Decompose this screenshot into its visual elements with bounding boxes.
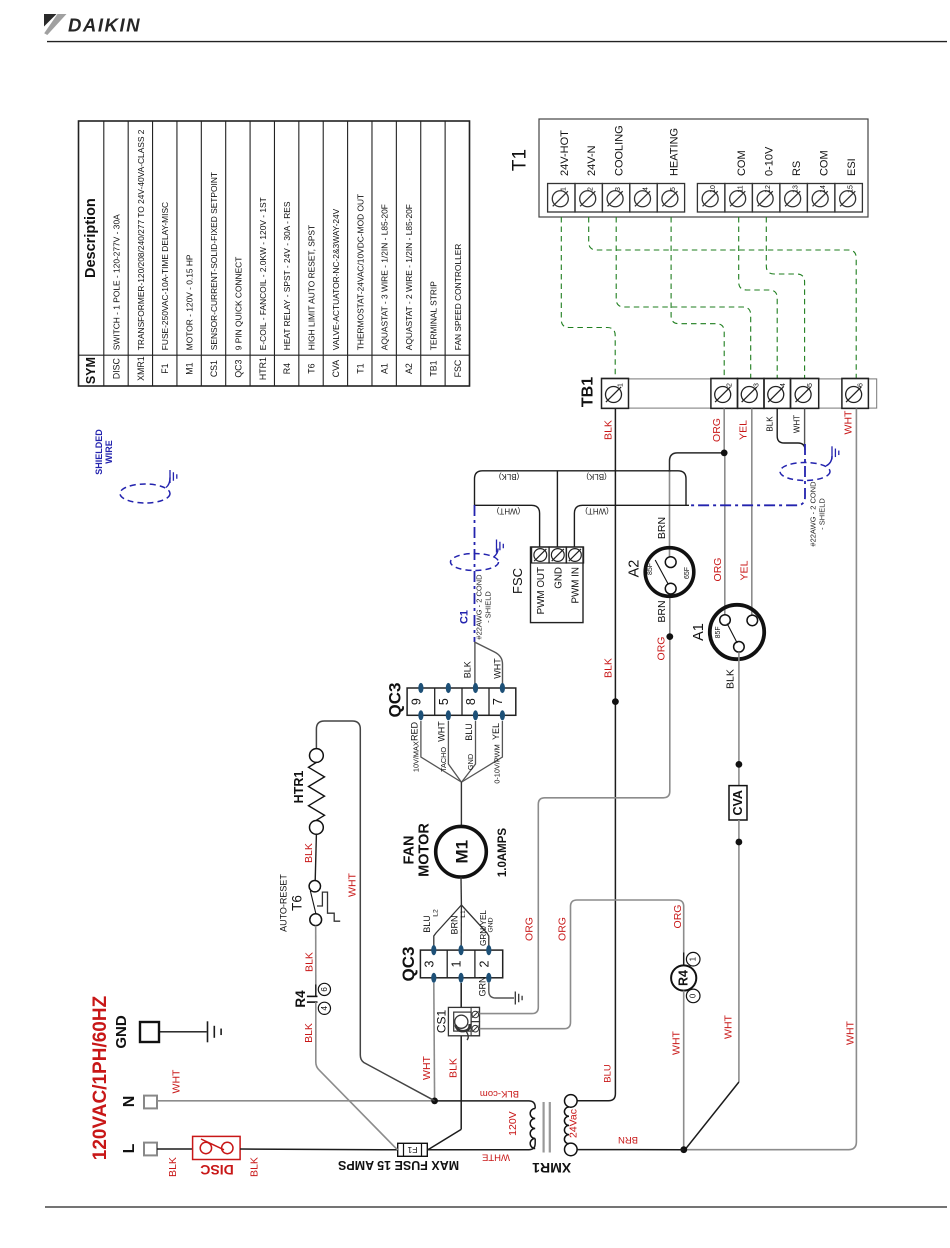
svg-text:FAN: FAN: [402, 836, 418, 865]
wire QC3-3 WHT down to N line: [433, 983, 436, 1101]
aquastat A2: [645, 548, 694, 597]
svg-text:XMR1: XMR1: [136, 356, 146, 381]
wire T1-5 to TB1-2: [671, 217, 724, 378]
svg-text:8: 8: [464, 698, 478, 705]
wire TB1-5 WHT to shielded cable: [804, 409, 806, 447]
svg-text:ORG: ORG: [556, 917, 568, 941]
svg-text:TB1: TB1: [428, 360, 438, 376]
relay coil R4: [683, 953, 685, 966]
T1 terminal 14: [807, 184, 835, 213]
svg-text:QC3: QC3: [399, 947, 418, 982]
svg-text:M1: M1: [453, 840, 472, 864]
TB1 terminal 4: [764, 378, 791, 408]
svg-text:C1: C1: [459, 610, 471, 624]
svg-text:BLK: BLK: [603, 420, 615, 440]
svg-text:AQUASTAT - 2 WIRE - 1/2IN - L8: AQUASTAT - 2 WIRE - 1/2IN - L85-20F: [404, 204, 414, 350]
svg-text:WHTE: WHTE: [482, 1152, 510, 1163]
svg-text:WHT: WHT: [171, 1069, 183, 1093]
svg-text:FUSE-250VAC-10A-TIME DELAY-MIS: FUSE-250VAC-10A-TIME DELAY-MISC: [160, 202, 170, 350]
svg-text:4: 4: [643, 187, 650, 191]
svg-text:R4: R4: [293, 990, 308, 1008]
svg-text:9 PIN QUICK CONNECT: 9 PIN QUICK CONNECT: [233, 257, 243, 351]
transformer XMR1 primary: [530, 1109, 535, 1149]
svg-text:DISC: DISC: [200, 1162, 233, 1178]
svg-text:13: 13: [793, 185, 800, 193]
T1 terminal 4: [630, 184, 657, 213]
svg-text:0-10V: 0-10V: [764, 146, 776, 176]
svg-text:YEL: YEL: [739, 560, 751, 580]
QC3 pin 7: [500, 683, 505, 693]
connector QC3 lower box: [420, 950, 502, 978]
svg-text:THERMOSTAT-24VAC/10VDC-MOD OUT: THERMOSTAT-24VAC/10VDC-MOD OUT: [355, 194, 365, 350]
svg-text:14: 14: [820, 185, 827, 193]
svg-text:2: 2: [588, 187, 595, 191]
svg-text:SHIELDED: SHIELDED: [94, 429, 104, 475]
svg-text:1: 1: [689, 956, 698, 961]
legend table frame: [79, 121, 470, 386]
current sensor CS1: [448, 1007, 479, 1035]
svg-text:(BLK): (BLK): [586, 472, 607, 481]
wire QC3-8 BLU to motor: [462, 721, 476, 782]
svg-text:R4: R4: [677, 970, 691, 986]
svg-text:11: 11: [738, 185, 745, 192]
svg-text:2: 2: [477, 960, 491, 967]
disconnect switch DISC: [193, 1136, 241, 1159]
shield ellipse C1: [451, 554, 499, 571]
svg-text:FAN SPEED CONTROLLER: FAN SPEED CONTROLLER: [453, 244, 463, 351]
svg-text:E-COIL - FANCOIL - 2.0KW - 120: E-COIL - FANCOIL - 2.0KW - 120V - 1ST: [258, 197, 268, 350]
svg-text:YEL: YEL: [491, 723, 501, 740]
svg-text:ORG: ORG: [712, 558, 724, 582]
wire R4 coil down to BRN junction: [683, 991, 685, 1150]
svg-text:BLK: BLK: [303, 952, 315, 972]
svg-text:24V-N: 24V-N: [586, 145, 598, 176]
svg-text:BLU: BLU: [464, 723, 474, 741]
svg-text:85F: 85F: [647, 563, 654, 575]
T1 terminal 12: [752, 184, 780, 213]
TB1 terminal 6: [842, 378, 869, 408]
wire TB1-3 YEL down to A1 right terminal: [751, 409, 753, 616]
shield symbol ellipse at TB1: [780, 463, 830, 481]
high limit switch T6: [309, 881, 320, 892]
wire N WHT to transformer: [157, 1100, 435, 1102]
svg-text:120V: 120V: [507, 1111, 519, 1136]
svg-text:A2: A2: [404, 363, 414, 374]
conductor BLK: C1 to FSC GND to cable: [475, 471, 687, 505]
svg-text:WHT: WHT: [347, 872, 359, 896]
wire L BLK to DISC: [157, 1148, 193, 1150]
svg-text:BLK: BLK: [765, 416, 774, 432]
svg-text:HEATING: HEATING: [668, 128, 680, 176]
terminal strip TB1 body: [602, 379, 877, 408]
wire BLK diagonal to F1: [427, 1129, 461, 1149]
Daikin logo mark: [44, 14, 57, 27]
wire WHT diagonal to N line: [360, 1055, 434, 1101]
wire TB1-4 BLK to shielded cable: [777, 409, 805, 451]
svg-text:1.0AMPS: 1.0AMPS: [497, 828, 509, 878]
wire A1 bottom BLK down to CVA: [738, 652, 740, 785]
svg-text:1: 1: [618, 383, 625, 387]
conductor BLK to QC3 pin 8: [474, 642, 476, 688]
XMR1 secondary: [565, 1095, 578, 1108]
wire T1-1 to TB1-1: [561, 217, 615, 378]
shield ground C1: [494, 549, 499, 558]
motor bottom stem: [460, 877, 462, 905]
svg-text:5: 5: [437, 698, 451, 705]
svg-text:HEAT RELAY - SPST - 24V - 30A: HEAT RELAY - SPST - 24V - 30A - RES: [282, 201, 292, 350]
svg-text:WIRE: WIRE: [104, 440, 114, 464]
svg-text:0-10V/PWM: 0-10V/PWM: [493, 744, 502, 783]
QC3 pin 8: [473, 683, 478, 693]
svg-text:- SHIELD: - SHIELD: [817, 498, 826, 530]
svg-text:WHT: WHT: [437, 721, 447, 742]
wire T1-11 to TB1-4: [739, 217, 778, 378]
aquastat A1: [710, 605, 764, 659]
svg-text:MOTOR - 120V - 0.15 HP: MOTOR - 120V - 0.15 HP: [185, 254, 195, 350]
svg-text:CS1: CS1: [434, 1010, 448, 1034]
svg-text:QC3: QC3: [233, 359, 243, 377]
svg-text:BLK: BLK: [462, 661, 472, 678]
wire QC3-1 BLK down through CS1: [460, 983, 462, 1008]
CS1 terminals: [471, 1007, 479, 1021]
QC3 pin 3: [431, 945, 436, 955]
svg-text:ORG: ORG: [656, 637, 668, 661]
wire T1-2 to TB1-6: [589, 217, 857, 378]
svg-text:12: 12: [765, 185, 772, 193]
svg-text:BLU: BLU: [422, 915, 432, 933]
svg-text:RED: RED: [409, 722, 419, 742]
svg-text:120VAC/1PH/60HZ: 120VAC/1PH/60HZ: [90, 995, 111, 1160]
wire T6 to R4 contact: [315, 926, 317, 985]
svg-text:7: 7: [491, 698, 505, 705]
TB1 terminal 5: [791, 378, 819, 408]
svg-text:MOTOR: MOTOR: [417, 823, 433, 877]
svg-text:HTR1: HTR1: [292, 771, 306, 804]
svg-text:(WHT): (WHT): [496, 506, 520, 515]
svg-text:BLK: BLK: [725, 669, 737, 689]
svg-text:F1: F1: [160, 363, 170, 373]
svg-text:5: 5: [670, 187, 677, 191]
svg-text:WHT: WHT: [493, 658, 503, 679]
svg-text:PWM IN: PWM IN: [570, 567, 581, 603]
wire T1-12 to TB1-5: [766, 217, 804, 378]
wire T1-3 to TB1-3: [616, 217, 751, 378]
svg-text:4: 4: [320, 1006, 329, 1011]
svg-text:M1: M1: [185, 362, 195, 374]
motor M1: [436, 826, 487, 877]
svg-text:AQUASTAT - 3 WIRE - 1/2IN - L8: AQUASTAT - 3 WIRE - 1/2IN - L85-20F: [380, 204, 390, 350]
QC3 pin 2: [486, 945, 491, 955]
svg-text:BLK: BLK: [303, 1023, 315, 1043]
svg-text:TERMINAL STRIP: TERMINAL STRIP: [428, 281, 438, 350]
svg-text:2: 2: [727, 383, 734, 387]
motor feed stem: [460, 782, 462, 826]
svg-text:BLK: BLK: [249, 1157, 261, 1177]
wire junction to A2 branch: [670, 453, 725, 472]
FSC GND drop: [556, 471, 558, 547]
svg-text:BRN: BRN: [449, 915, 459, 934]
svg-text:ORG: ORG: [672, 905, 684, 929]
connector QC3 upper box: [407, 688, 516, 715]
svg-text:A2: A2: [627, 560, 643, 578]
svg-text:- SHIELD: - SHIELD: [483, 591, 492, 623]
svg-text:BLK: BLK: [167, 1157, 179, 1177]
wire BRN XMR1 to junction: [577, 1149, 684, 1151]
svg-text:MAX FUSE 15 AMPS: MAX FUSE 15 AMPS: [338, 1158, 459, 1172]
conductor WHT to QC3 pin 7: [475, 642, 503, 688]
svg-text:6: 6: [320, 987, 329, 992]
svg-text:L1: L1: [460, 910, 467, 918]
wire R4 down and diagonal to F1 left: [316, 1002, 398, 1150]
FSC terminal PWM OUT: [532, 547, 549, 563]
cable C1 blue run: [474, 505, 476, 642]
svg-text:(WHT): (WHT): [585, 506, 609, 515]
T1 terminal 15: [835, 184, 863, 213]
svg-text:3: 3: [422, 960, 436, 967]
wire DISC to F1: [240, 1148, 398, 1151]
svg-text:COM: COM: [736, 150, 748, 176]
note SHIELDED WIRE: [94, 429, 114, 475]
svg-text:WHT: WHT: [421, 1055, 433, 1079]
relay contact R4: [315, 984, 317, 996]
svg-text:BRN: BRN: [656, 517, 668, 539]
svg-text:GRN/YEL: GRN/YEL: [479, 910, 488, 946]
svg-text:85F: 85F: [715, 626, 722, 638]
svg-text:WHT: WHT: [842, 410, 854, 434]
svg-text:ORG: ORG: [711, 418, 723, 442]
svg-text:L: L: [121, 1143, 138, 1153]
svg-text:CVA: CVA: [731, 790, 745, 815]
wire F1 to XMR1 primary: [427, 1139, 535, 1150]
svg-text:HIGH LIMIT AUTO RESET, SPST: HIGH LIMIT AUTO RESET, SPST: [307, 225, 317, 350]
wire CVA down to BRN junction: [738, 820, 740, 1082]
svg-text:6: 6: [858, 383, 865, 387]
svg-text:9: 9: [409, 698, 423, 705]
ground GND box: [140, 1022, 159, 1042]
terminal L: [144, 1143, 157, 1156]
svg-text:GND: GND: [113, 1015, 130, 1049]
heater HTR1: [310, 749, 324, 763]
svg-text:HTR1: HTR1: [258, 357, 268, 380]
svg-text:BRN: BRN: [618, 1134, 638, 1145]
svg-text:ORG: ORG: [524, 917, 536, 941]
FSC terminal GND: [549, 547, 566, 563]
svg-text:GND: GND: [553, 567, 564, 589]
svg-text:WHT: WHT: [844, 1020, 856, 1044]
svg-text:R4: R4: [282, 363, 292, 374]
svg-text:N: N: [121, 1096, 138, 1108]
T1 terminal 3: [602, 184, 629, 213]
svg-text:FSC: FSC: [453, 359, 463, 377]
T1 terminal 10: [697, 184, 725, 213]
svg-text:T1: T1: [510, 149, 531, 171]
svg-text:WHT: WHT: [792, 415, 801, 433]
XMR1 core: [542, 1102, 544, 1153]
svg-text:SWITCH - 1 POLE - 120-277V - 3: SWITCH - 1 POLE - 120-277V - 30A: [111, 214, 121, 350]
svg-text:F1: F1: [407, 1145, 417, 1155]
svg-text:A1: A1: [380, 363, 390, 374]
fuse F1: [398, 1143, 428, 1156]
svg-text:VALVE-ACTUATOR-NC-2&3WAY-24V: VALVE-ACTUATOR-NC-2&3WAY-24V: [331, 208, 341, 350]
T1 terminal 11: [725, 184, 753, 213]
TB1 terminal 3: [738, 378, 765, 408]
wire QC3-9 RED to motor: [421, 721, 461, 782]
svg-text:FSC: FSC: [510, 568, 525, 594]
svg-text:QC3: QC3: [386, 683, 405, 718]
svg-text:WHT: WHT: [670, 1030, 682, 1054]
svg-text:10: 10: [710, 185, 717, 193]
T1 terminal 5: [657, 184, 684, 213]
conductor WHT: C1 to FSC PWM OUT: [475, 505, 540, 547]
wire ORG to A1 left terminal: [724, 452, 726, 614]
svg-text:SYM: SYM: [84, 357, 98, 384]
terminal N: [144, 1096, 157, 1109]
TB1 terminal 1: [602, 378, 629, 408]
QC3 pin 5: [446, 683, 451, 693]
wire motor to QC3-1: [460, 905, 462, 950]
valve actuator CVA: [729, 786, 747, 820]
svg-text:WHT: WHT: [722, 1014, 734, 1038]
svg-text:24V-HOT: 24V-HOT: [559, 130, 571, 176]
svg-text:0: 0: [689, 993, 698, 998]
svg-text:CVA: CVA: [331, 360, 341, 378]
svg-text:GRN: GRN: [478, 977, 488, 997]
header rule: [47, 41, 947, 43]
wire TB1-6 WHT down right edge: [684, 409, 857, 1150]
wire TB1-2 ORG down: [723, 409, 725, 453]
FSC terminal PWM IN: [566, 547, 583, 563]
svg-text:DISC: DISC: [111, 357, 121, 379]
svg-text:24Vac: 24Vac: [568, 1109, 580, 1138]
shielded cable C2 blue run to FSC: [688, 444, 805, 505]
svg-text:XMR1: XMR1: [532, 1160, 571, 1176]
svg-text:65F: 65F: [684, 567, 691, 579]
svg-text:15: 15: [848, 185, 855, 193]
T1 terminal 13: [780, 184, 808, 213]
QC3 pin 9: [418, 683, 423, 693]
wire QC3-2 GRN to ground: [489, 983, 514, 998]
svg-text:3: 3: [615, 187, 622, 191]
svg-text:L2: L2: [432, 909, 439, 917]
wire QC3-5 WHT to motor: [448, 721, 461, 782]
T1 terminal 2: [575, 184, 602, 213]
svg-text:PWM OUT: PWM OUT: [536, 567, 547, 614]
wire QC3-7 YEL to motor: [462, 721, 503, 782]
svg-text:GND: GND: [488, 917, 495, 932]
wire CS1 out2 (ORG) up to R4 coil: [480, 900, 684, 1029]
svg-text:YEL: YEL: [737, 420, 749, 440]
svg-text:CS1: CS1: [209, 360, 219, 377]
svg-text:ESI: ESI: [846, 158, 858, 176]
svg-text:BLK-com: BLK-com: [480, 1088, 519, 1099]
svg-text:(BLK): (BLK): [498, 472, 519, 481]
svg-text:1: 1: [450, 960, 464, 967]
svg-text:5: 5: [807, 383, 814, 387]
TB1 terminal 2: [711, 378, 738, 408]
svg-text:3: 3: [753, 383, 760, 387]
svg-text:BRN: BRN: [656, 600, 668, 622]
svg-text:T6: T6: [290, 895, 305, 911]
T1 terminal 1: [548, 184, 575, 213]
svg-text:BLK: BLK: [447, 1058, 459, 1078]
svg-text:DAIKIN: DAIKIN: [68, 14, 141, 35]
svg-text:BLU: BLU: [603, 1064, 614, 1083]
wire CS1 out1 (ORG) up to A2 path: [480, 594, 670, 1014]
wire motor to QC3-2: [461, 905, 488, 950]
svg-text:COM: COM: [819, 150, 831, 176]
svg-text:TACHO: TACHO: [439, 747, 448, 772]
wire bridge HTR1 top to WHT line: [316, 721, 360, 1055]
footer rule: [45, 1206, 947, 1208]
QC3 pin 1: [458, 945, 463, 955]
svg-text:COOLING: COOLING: [614, 125, 626, 176]
shield ground at TB1: [826, 456, 832, 466]
svg-text:AUTO-RESET: AUTO-RESET: [278, 874, 288, 932]
wire motor to QC3-3: [434, 905, 462, 950]
svg-text:4: 4: [780, 383, 787, 387]
svg-text:BLK: BLK: [603, 658, 615, 678]
svg-text:TRANSFORMER-120/208/240/277 TO: TRANSFORMER-120/208/240/277 TO 24V-40VA-…: [136, 129, 146, 350]
svg-text:BLK: BLK: [303, 843, 315, 863]
wire TB1-1 BLK down to XMR1 secondary: [577, 409, 615, 1101]
svg-text:GND: GND: [466, 754, 475, 770]
conductor WHT: FSC PWM IN to cable: [574, 505, 689, 547]
svg-text:T6: T6: [307, 363, 317, 373]
svg-text:1: 1: [560, 187, 567, 191]
fan speed controller FSC box: [531, 547, 584, 623]
svg-text:SENSOR-CURRENT-SOLID-FIXED SET: SENSOR-CURRENT-SOLID-FIXED SETPOINT: [209, 172, 219, 350]
svg-text:T1: T1: [355, 363, 365, 373]
svg-text:TB1: TB1: [580, 377, 597, 407]
wire HTR1 to T6 BLK: [315, 834, 316, 881]
svg-text:Description: Description: [83, 198, 99, 278]
svg-text:A1: A1: [691, 623, 707, 641]
thermostat T1 box: [539, 119, 868, 217]
svg-text:RS: RS: [791, 161, 803, 176]
svg-text:10V/MAX: 10V/MAX: [411, 741, 420, 772]
